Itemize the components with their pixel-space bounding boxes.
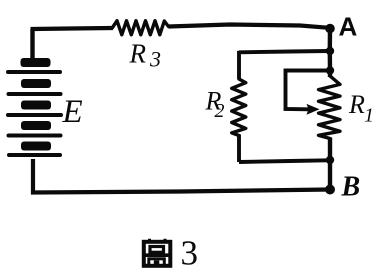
node B xyxy=(325,185,335,195)
node junction wiper top xyxy=(326,66,334,74)
svg-text:E: E xyxy=(62,94,83,130)
wire R2 left vertical lower xyxy=(237,135,241,163)
wire wiper loop xyxy=(286,71,329,110)
wire R2 left vertical upper xyxy=(237,51,241,79)
node A xyxy=(325,24,335,34)
svg-text:3: 3 xyxy=(149,47,161,72)
svg-text:1: 1 xyxy=(364,105,374,127)
resistor R2 xyxy=(232,79,246,136)
node junction R2 bottom xyxy=(326,156,334,164)
svg-text:A: A xyxy=(339,12,358,42)
wire bottom xyxy=(33,159,330,193)
node junction R2 top xyxy=(326,47,334,55)
wire top left xyxy=(31,28,114,29)
svg-text:B: B xyxy=(341,172,361,203)
svg-text:R: R xyxy=(348,90,365,119)
wire battery top stub xyxy=(30,29,34,60)
wire right vertical lower xyxy=(328,138,332,191)
svg-text:R: R xyxy=(129,39,147,69)
wire top right xyxy=(169,25,330,28)
resistor R1 xyxy=(319,76,341,139)
caption 圖 3 xyxy=(144,239,171,266)
wiper arrow xyxy=(307,104,320,115)
wire R2 bottom branch xyxy=(239,160,328,162)
battery E xyxy=(6,58,63,157)
resistor R3 xyxy=(113,21,169,35)
svg-text:2: 2 xyxy=(215,100,225,122)
wire right vertical upper xyxy=(328,28,333,77)
wire R2 top branch xyxy=(239,51,328,52)
svg-text:3: 3 xyxy=(181,234,199,273)
